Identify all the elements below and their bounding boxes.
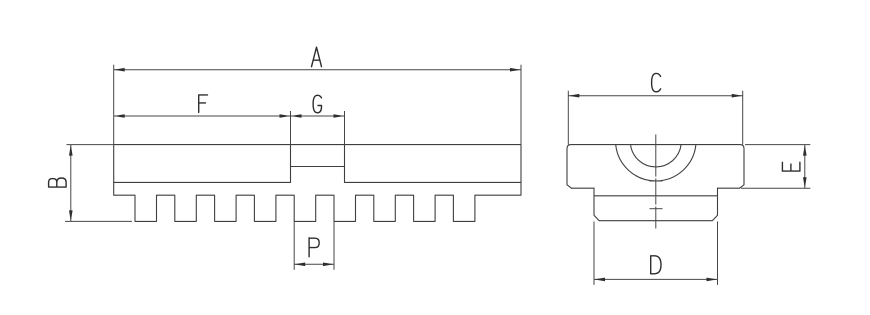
arrowhead D left (594, 278, 605, 282)
right view: boss internal line (594, 195, 718, 197)
label F (199, 95, 208, 113)
label C (652, 73, 661, 91)
arrowhead P right (323, 263, 334, 267)
left view: G-boss bottom line (291, 166, 345, 168)
right view: inner semicircular arc (631, 145, 682, 167)
left view: jaw body outline with serrated rack (114, 145, 521, 222)
arrowhead F right (280, 114, 291, 118)
dimension B line (70, 145, 72, 222)
left view: G-boss left edge (290, 145, 292, 183)
label A (312, 47, 322, 66)
dimension E extension line bottom (741, 187, 810, 189)
right view: center tick lower (650, 208, 663, 210)
arrowhead A right (510, 68, 521, 72)
dimension C extension line left (567, 91, 569, 145)
dimension A extension line right (520, 65, 522, 145)
arrowhead P left (294, 263, 305, 267)
right view: step line left flange (572, 187, 595, 189)
label D (651, 256, 661, 274)
left view: internal step line left segment (114, 181, 291, 183)
right view: vertical centerline segment 1 (655, 134, 657, 176)
arrowhead F left (114, 114, 125, 118)
left view: internal step line right segment (345, 181, 522, 183)
dimension A line (114, 69, 521, 71)
arrowhead B bottom (69, 210, 73, 221)
dimension C line (568, 95, 742, 97)
dimension C extension line right (742, 91, 744, 145)
dimension E extension line top (745, 144, 810, 146)
dimension G line (291, 115, 345, 117)
label G (313, 95, 321, 113)
arrowhead C left (568, 94, 579, 98)
dimension A extension line left (113, 65, 115, 145)
arrowhead E bottom (803, 177, 807, 188)
label B (rotated) (49, 178, 67, 187)
arrowhead A left (114, 68, 125, 72)
right view: top block outline (567, 145, 744, 189)
right view: vertical centerline segment 2 (655, 178, 657, 204)
dimension B extension line top (67, 144, 114, 146)
right view: lower boss outline (594, 188, 718, 221)
dimension P extension line left (293, 221, 295, 269)
arrowhead E top (803, 145, 807, 156)
label P (309, 238, 319, 257)
arrowhead C right (732, 94, 743, 98)
arrowhead D right (707, 278, 718, 282)
dimension D extension line left (593, 222, 595, 285)
right view: vertical centerline segment 3 (655, 206, 657, 228)
dimension E line (804, 145, 806, 189)
right view: center tick upper (650, 180, 663, 182)
dimension G extension line right (344, 111, 346, 145)
dimension F/G shared extension line (290, 111, 292, 145)
dimension B extension line bottom (65, 220, 132, 222)
right view: outer semicircular arc (616, 145, 696, 181)
label E (rotated) (782, 162, 800, 171)
arrowhead B top (69, 145, 73, 156)
arrowhead G right (334, 114, 345, 118)
right view: step line right flange (718, 187, 740, 189)
dimension D line (594, 278, 718, 280)
dimension F line (114, 115, 291, 117)
dimension D extension line right (717, 222, 719, 285)
left view: G-boss right edge (344, 145, 346, 183)
arrowhead G left (291, 114, 302, 118)
dimension P extension line right (333, 221, 335, 269)
dimension P line (294, 263, 334, 265)
